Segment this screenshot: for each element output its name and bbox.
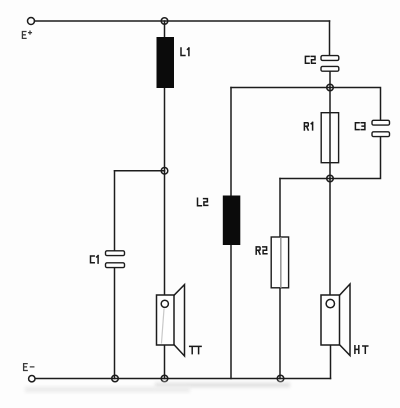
inductor L2	[223, 196, 241, 246]
label C2	[305, 56, 315, 63]
scan artifact smear below bottom rail	[155, 383, 290, 388]
speaker TT	[157, 285, 185, 356]
scan artifact smear bottom left	[25, 387, 190, 393]
label C3	[355, 123, 365, 130]
resistor R1	[321, 113, 338, 163]
wire top rail from E+ to corner	[35, 20, 330, 22]
label HT	[355, 346, 368, 353]
terminal E-	[29, 376, 35, 382]
wire node A left to L2 branch	[231, 87, 330, 89]
wire R2 bottom to bottom rail	[279, 288, 281, 379]
wire top junction down through L1 to TT speaker top	[164, 21, 166, 295]
label L1	[181, 48, 189, 56]
label TT	[190, 346, 201, 353]
wire C1 bottom to bottom rail	[114, 267, 116, 379]
label E+	[22, 31, 31, 38]
wire R2 branch down to R2 top	[279, 179, 281, 238]
wire HT speaker bottom to bottom rail	[330, 345, 332, 379]
junction bottom rail C1 branch	[112, 375, 119, 382]
inductor L1	[157, 37, 175, 88]
wire seen through R2	[280, 238, 282, 287]
wire node B left to R2 branch	[280, 178, 330, 180]
resistor R2	[271, 237, 288, 288]
junction node A below C2	[327, 84, 334, 91]
junction bottom rail R2 branch	[277, 375, 284, 382]
junction on top rail	[161, 18, 168, 25]
speaker HT	[321, 284, 350, 356]
capacitor C3	[372, 120, 390, 136]
wire node B down to HT speaker top	[329, 179, 331, 296]
wire C3 bottom down then left to node B	[330, 137, 381, 179]
label L2	[198, 198, 208, 206]
label C1	[91, 256, 99, 264]
wire TT speaker bottom to bottom rail	[164, 345, 166, 379]
wire bottom rail from E- to HT branch	[36, 378, 331, 380]
wire node A down through R1 to node B	[329, 88, 331, 179]
terminal E+	[28, 18, 35, 25]
wire C2 bottom to node A	[329, 71, 331, 88]
wire L2 branch down to L2 top	[230, 88, 232, 197]
wire L2 bottom to bottom rail	[230, 245, 232, 379]
capacitor C1	[106, 251, 125, 268]
wire node C left to C1 branch	[115, 170, 165, 172]
label R2	[256, 247, 267, 254]
wire C1 branch down to C1 top	[114, 171, 116, 251]
junction node C on TT branch	[161, 168, 168, 175]
junction bottom rail TT branch	[161, 375, 168, 382]
wire node A right then down to C3 top	[330, 88, 381, 120]
wire corner down to C2 top	[329, 21, 331, 56]
label R1	[304, 122, 312, 130]
junction node B below R1	[327, 175, 334, 182]
capacitor C2	[321, 56, 339, 72]
label E-	[24, 364, 34, 371]
